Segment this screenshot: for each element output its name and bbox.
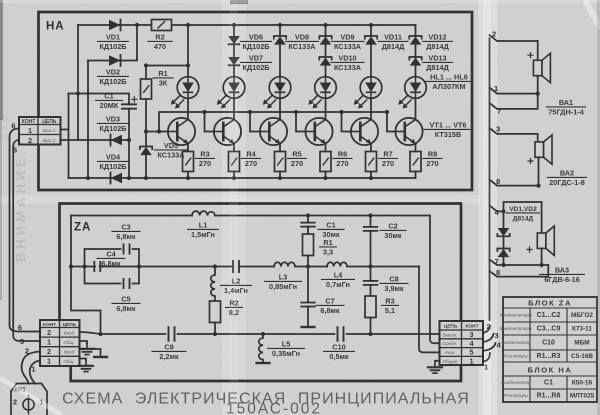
diode VD2	[109, 55, 121, 66]
ground (output common)	[428, 362, 442, 374]
wire: base tap to VT5 base	[342, 112, 351, 132]
capacitor C10	[338, 327, 344, 341]
wire: C3 parallel loop	[85, 249, 140, 284]
wire: VD2 up to bus junction	[136, 25, 138, 61]
node base bus corner	[157, 129, 161, 133]
LED HL2	[217, 77, 245, 109]
wires: output pins fan to speaker cable	[483, 326, 490, 333]
wire: row2 to ground	[80, 341, 88, 343]
LED HL3	[263, 77, 291, 109]
LED HL6	[398, 77, 426, 109]
transistor VT2	[214, 118, 241, 145]
wire: column 3 from top bus	[279, 25, 281, 36]
node mid bus / C1R1	[306, 264, 310, 268]
diode VD4 on common bus	[111, 173, 123, 184]
node on common bus	[278, 176, 282, 180]
node on common bus	[369, 176, 373, 180]
pin 3 stub to BA2	[490, 128, 538, 142]
wire: margin wire 5	[13, 140, 40, 341]
connector XP1	[11, 384, 47, 415]
pin 1 stub	[490, 88, 538, 94]
inductor L3	[274, 262, 295, 266]
ground (ZA row2)	[80, 343, 94, 355]
resistor R1 (ZA)	[303, 234, 314, 256]
capacitor C9	[169, 327, 175, 341]
transistor VT4	[305, 118, 332, 145]
resistor R5	[275, 152, 286, 172]
node mid bus / group right	[137, 264, 141, 268]
wire: BA1 plus drop	[537, 41, 539, 60]
wire: VT5 emitter to R7	[370, 144, 372, 152]
LED HL1	[171, 77, 199, 109]
L5 terminator bar	[257, 362, 270, 364]
node VD3 / C1 column	[127, 138, 131, 142]
node on common bus	[323, 176, 327, 180]
node on common bus	[186, 176, 190, 180]
diode VD11	[365, 36, 377, 45]
node bottom bus / L5	[261, 332, 265, 336]
zener VD1 (protective)	[497, 228, 509, 236]
parts table	[500, 297, 597, 402]
diode VD9	[319, 36, 331, 45]
wire: VD2 row	[88, 60, 137, 62]
speaker BA1	[533, 53, 550, 82]
zener VD2 (protective)	[503, 236, 505, 248]
wire: VT2 emitter to R4	[233, 144, 235, 152]
node top bus / C2 branch	[368, 213, 372, 217]
node LED1 column	[186, 63, 190, 67]
capacitor C3	[124, 244, 130, 253]
wire: LED6 cathode to VT6 collector	[415, 98, 417, 119]
wire: HF bottom bus	[101, 333, 440, 335]
HA connector table (КОНТ/ЦЕПЬ)	[19, 117, 61, 145]
wire: top supply bus	[78, 24, 416, 26]
wire: left vertical from top bus	[77, 25, 79, 140]
node top bus column 4	[323, 23, 327, 27]
node base tap stage 5	[339, 110, 343, 114]
node on common bus	[86, 176, 90, 180]
node base tap stage 2	[202, 110, 206, 114]
capacitor C2 (ZA)	[370, 216, 372, 227]
resistor R7	[366, 152, 377, 172]
diode VD8	[274, 36, 286, 45]
capacitor C6 (series, label faded)	[233, 261, 239, 272]
wire: R1 top to LED1 column	[146, 65, 188, 67]
node on common bus	[232, 176, 236, 180]
diode VD1	[109, 20, 121, 31]
wire: LED5 cathode to VT5 collector	[370, 98, 372, 119]
wire: BA1 minus drop	[537, 76, 539, 94]
resistor R3	[183, 152, 194, 172]
node on common bus	[144, 176, 148, 180]
ZA input connector table (КОНТ/ЦЕПЬ)	[40, 320, 80, 366]
wire: base tap to VT4 base	[296, 112, 305, 132]
ground (ZA row4)	[79, 360, 93, 372]
wire: VT1 base row	[146, 131, 168, 133]
capacitor C5	[124, 279, 130, 288]
wire: LED1 cathode to VT1 collector	[187, 98, 189, 119]
node on common bus	[127, 176, 131, 180]
node bottom bus / L2R2	[213, 332, 217, 336]
node mid bus / L2	[213, 264, 217, 268]
inductor L1	[192, 211, 215, 215]
ZA crossover block border	[60, 204, 462, 382]
diode VD7	[228, 57, 240, 65]
wire: base tap to VT3 base	[250, 112, 260, 132]
speaker BA3	[537, 226, 554, 255]
resistor R1	[145, 66, 147, 80]
transistor VT3	[260, 118, 287, 145]
diode VD3	[61, 139, 130, 141]
node R1 bottom / base row	[144, 129, 148, 133]
node top bus column 3	[278, 23, 282, 27]
wire: MF middle bus	[71, 266, 419, 268]
wire: output row4 to ground	[435, 360, 440, 363]
inductor L4	[327, 262, 347, 266]
diode VD12	[409, 36, 421, 45]
wire: LED4 cathode to VT4 collector	[325, 98, 327, 119]
capacitor C7	[307, 267, 309, 303]
transistor VT6	[395, 118, 422, 145]
wire: LF top bus	[71, 215, 430, 217]
node input/mid-bus	[69, 264, 73, 268]
node on left vertical	[76, 91, 80, 95]
wire: VT1 emitter to R3	[187, 144, 189, 152]
wire: row4 to ground	[80, 359, 87, 361]
zener VD5	[140, 147, 152, 156]
resistor R8	[410, 152, 421, 172]
transistor VT5	[351, 118, 378, 145]
node mid bus / group left	[82, 264, 86, 268]
wire: VT3 emitter to R5	[279, 144, 281, 152]
diode VD10	[319, 57, 331, 66]
wire: column 6 from top bus	[415, 25, 417, 36]
speaker BA2	[535, 135, 552, 164]
wire: base coupling bus	[159, 112, 387, 132]
wire: column 1 from top bus	[187, 25, 189, 77]
pin 2 stub to BA1 plus	[490, 35, 538, 41]
node bottom bus / R3	[368, 332, 372, 336]
wire: column 2 from top bus	[233, 25, 235, 36]
node top bus column 1	[186, 23, 190, 27]
wire: riser x=68.5	[68, 94, 70, 179]
resistor R4	[229, 152, 240, 172]
wire: connector row1 to riser	[61, 129, 69, 131]
node base tap stage 4	[294, 110, 298, 114]
ZA output connector table (ЦЕПЬ/КОНТ)	[440, 321, 484, 365]
node R1 top	[144, 63, 148, 67]
wire: node row y=93.5 to C1 column	[69, 93, 130, 95]
wire: VD2 branch vertical	[87, 61, 89, 179]
node VD1/VD2/R2 junction	[135, 23, 139, 27]
diode VD13	[409, 57, 421, 66]
capacitor C1 (ZA)	[307, 216, 309, 223]
transistor VT1	[168, 118, 195, 145]
LED HL4	[308, 77, 336, 109]
wire: emitter common bus	[69, 177, 416, 179]
wire: base tap to VT6 base	[387, 112, 395, 132]
wire: XP1 lead 2	[22, 352, 40, 384]
node input/bottom-bus	[98, 332, 102, 336]
pin 4 stub to zeners	[490, 206, 504, 212]
wire: LED2 cathode to VT2 collector	[233, 98, 235, 119]
wire: top bus down to output connector	[430, 216, 440, 344]
capacitor C4 (series on bus)	[94, 262, 100, 271]
wire: LED3 cathode to VT3 collector	[279, 98, 281, 119]
wire: row1 to input node	[80, 332, 101, 334]
wire: input riser	[71, 216, 101, 335]
wire: column 5 from top bus	[370, 25, 372, 36]
capacitor C1 (electrolytic)	[128, 94, 130, 105]
wire: BA3 minus row	[504, 248, 542, 265]
resistor R3 (ZA)	[365, 296, 376, 318]
node base tap stage 3	[248, 110, 252, 114]
wire: zener column / BA3 plus	[504, 202, 542, 233]
LED HL5	[354, 77, 382, 109]
C7 terminator bar	[302, 326, 315, 328]
wire: column 4 from top bus	[325, 25, 327, 36]
wire: mid bus down to output connector	[419, 267, 440, 353]
diode VD6	[228, 36, 240, 44]
fold creases (under ink)	[478, 0, 497, 415]
node top bus / C1 branch	[306, 213, 310, 217]
node top bus column 5	[369, 23, 373, 27]
HA indicator block border	[39, 12, 473, 190]
resistor R2 (ZA)	[210, 301, 221, 323]
resistor R2	[152, 20, 172, 31]
capacitor C8	[370, 267, 372, 281]
wire: VT4 emitter to R6	[325, 144, 327, 152]
pin 8 stub (BA3)	[490, 265, 549, 277]
wire: base tap to VT2 base	[205, 112, 214, 132]
node mid bus / C2C8	[368, 264, 372, 268]
wire: row3 stub terminator	[80, 349, 101, 356]
node top bus column 2	[232, 23, 236, 27]
pin 7 stub (BA3)	[490, 259, 504, 265]
wire: margin wire 6	[10, 129, 41, 332]
pin 7 stub	[490, 94, 538, 109]
wire: XP1 lead 1	[30, 361, 40, 384]
resistor R6	[320, 152, 331, 172]
node base tap stage 6	[385, 110, 389, 114]
wire: VT6 emitter to R8	[415, 144, 417, 152]
inductor L2	[211, 267, 215, 302]
inductor L5	[259, 334, 263, 362]
pin 8 stub	[490, 157, 539, 185]
wire: speaker cable trunk	[489, 38, 491, 320]
